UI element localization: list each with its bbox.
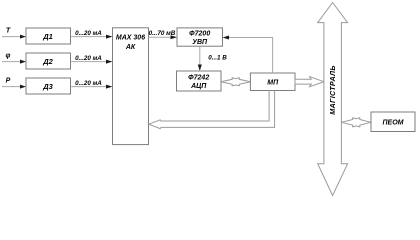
svg-text:МАХ 306: МАХ 306 [116,35,145,42]
svg-text:φ: φ [6,53,11,60]
svg-text:0...20 мА: 0...20 мА [75,30,102,37]
microprocessor block MP [250,73,295,91]
svg-text:Д3: Д3 [42,82,53,91]
bus double-arrow magistral to PEOM [342,118,372,127]
wire P input arrow [2,85,26,89]
svg-text:Д1: Д1 [42,32,53,41]
wire MAX306 to UVP with 0...70 mV label [149,30,178,39]
sensor block D3 [26,78,71,94]
magistral bus double-headed arrow [318,3,348,196]
svg-text:P: P [6,78,11,85]
wire D2 to MAX306 with 0...20 mA label [71,55,113,64]
sensor block D1 [26,28,71,44]
svg-text:Д2: Д2 [42,57,53,66]
bus double-arrow ADC to MP [221,78,250,86]
amplifier block F7200 UVP [177,28,223,46]
svg-text:T: T [6,28,11,35]
multiplexer block MAX306 AK [113,28,149,145]
svg-text:МП: МП [267,80,279,87]
bus hollow arrow MP to MAX306 control [149,91,275,129]
svg-text:ПЕОМ: ПЕОМ [383,120,404,127]
wire phi input arrow [2,60,26,64]
wire D1 to MAX306 with 0...20 mA label [71,30,113,39]
svg-text:Ф7200: Ф7200 [189,31,210,38]
svg-text:УВП: УВП [192,39,208,46]
sensor block D2 [26,53,71,69]
svg-text:0...1 В: 0...1 В [208,55,227,62]
wire T input arrow [2,35,26,39]
wire MP control to UVP [223,36,273,74]
svg-text:МАГІСТРАЛЬ: МАГІСТРАЛЬ [328,65,337,115]
svg-text:АК: АК [125,44,136,51]
computer block PEOM [371,112,415,132]
svg-text:0...20 мА: 0...20 мА [75,55,102,62]
svg-text:Ф7242: Ф7242 [188,75,209,82]
svg-text:0...20 мА: 0...20 мА [75,80,102,87]
svg-text:АЦП: АЦП [190,83,207,90]
ADC block F7242 ACP [177,71,222,91]
wire D3 to MAX306 with 0...20 mA label [71,80,113,89]
wire UVP to ADC with 0...1 V label [198,46,227,71]
bus hollow arrow MP to magistral [295,77,324,87]
